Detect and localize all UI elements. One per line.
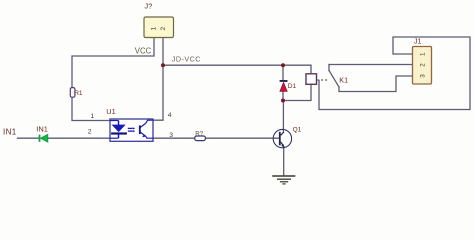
svg-text:R1: R1 [74,90,83,97]
svg-text:3: 3 [420,74,427,78]
svg-text:IN1: IN1 [3,127,17,136]
svg-text:Q1: Q1 [293,127,302,134]
svg-text:1: 1 [420,52,427,56]
svg-text:K1: K1 [339,75,348,84]
svg-text:IN1: IN1 [36,125,48,134]
svg-text:1: 1 [151,27,158,31]
svg-text:VCC: VCC [135,46,152,55]
svg-text:R?: R? [195,131,203,138]
svg-text:J1: J1 [414,39,422,46]
svg-text:4: 4 [168,112,172,119]
svg-text:2: 2 [160,27,167,31]
svg-text:2: 2 [88,129,92,136]
svg-text:3: 3 [169,132,173,139]
svg-text:J?: J? [144,2,152,11]
svg-text:2: 2 [420,63,427,67]
svg-text:D1: D1 [288,83,297,90]
svg-text:1: 1 [91,113,95,120]
svg-text:U1: U1 [106,107,115,116]
svg-text:JD-VCC: JD-VCC [172,55,201,64]
